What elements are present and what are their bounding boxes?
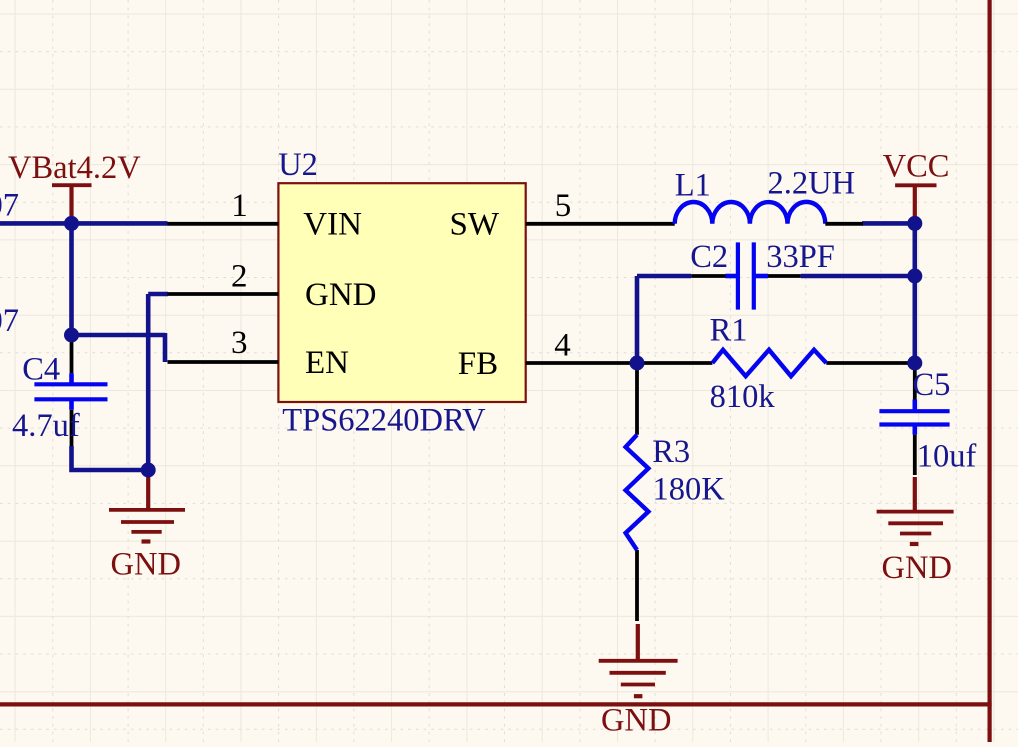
svg-text:FB: FB	[458, 346, 498, 382]
svg-text:07: 07	[0, 303, 19, 339]
svg-text:C2: C2	[690, 239, 728, 275]
svg-text:1: 1	[231, 188, 248, 224]
pin name FB	[458, 346, 498, 382]
svg-text:TPS62240DRV: TPS62240DRV	[282, 403, 486, 439]
inductor L1	[675, 202, 826, 224]
value 180K	[653, 472, 726, 508]
svg-text:4: 4	[554, 328, 571, 364]
pin number 2	[231, 259, 248, 295]
ground symbol bottom	[599, 624, 678, 696]
capacitor C2 plates	[738, 242, 754, 309]
wire C2 right	[801, 274, 915, 279]
svg-text:R3: R3	[652, 434, 690, 470]
net label VBat4.2V	[8, 150, 141, 186]
svg-text:3: 3	[231, 325, 248, 361]
svg-text:U2: U2	[278, 147, 318, 183]
capacitor C2 leads	[691, 274, 801, 278]
pin number 3	[231, 325, 248, 361]
designator R1	[710, 313, 748, 349]
value 4.7uf	[12, 408, 80, 444]
wire GND vertical	[146, 294, 151, 470]
capacitor C5 plates	[879, 400, 949, 435]
junction node C4/GND	[141, 463, 156, 478]
capacitor C4 leads	[70, 335, 74, 446]
capacitor C2 plate stubs	[726, 274, 769, 279]
designator C4	[22, 351, 60, 387]
value 2.2UH	[768, 166, 856, 202]
junction node VCC top	[907, 216, 922, 231]
resistor R1 leads	[637, 361, 908, 365]
svg-text:810k: 810k	[710, 379, 776, 415]
svg-text:07: 07	[0, 188, 19, 224]
svg-text:EN: EN	[305, 345, 349, 381]
pin 3 EN	[168, 360, 279, 364]
pin number 4	[554, 328, 571, 364]
wire VBat net horizontal	[0, 221, 168, 226]
wire C2 left	[637, 274, 691, 279]
cut net label 07 lower	[0, 303, 19, 339]
svg-text:VCC: VCC	[883, 149, 950, 185]
designator R3	[652, 434, 690, 470]
power port VCC	[895, 185, 936, 223]
pin number 5	[555, 188, 572, 224]
designator C5	[913, 367, 951, 403]
svg-text:GND: GND	[601, 703, 671, 739]
junction node VCC mid	[907, 269, 922, 284]
pin 5 SW	[526, 222, 675, 226]
svg-text:33PF: 33PF	[766, 239, 835, 275]
junction node VCC/C5	[907, 356, 922, 371]
wire VBat vertical to C4	[69, 223, 74, 335]
op-amp U2 body	[278, 183, 525, 402]
pin name EN	[305, 345, 349, 381]
svg-text:R1: R1	[710, 313, 748, 349]
svg-text:VBat4.2V: VBat4.2V	[8, 150, 141, 186]
wire EN vertical	[163, 333, 168, 362]
wire C2 to FB vertical	[635, 276, 640, 363]
junction node VBat/pin1	[64, 216, 79, 231]
svg-text:GND: GND	[305, 277, 377, 313]
svg-text:SW: SW	[450, 207, 500, 243]
ground symbol right	[877, 477, 954, 544]
value TPS62240DRV	[282, 403, 486, 439]
designator U2	[278, 147, 318, 183]
pin 2 GND	[168, 292, 279, 296]
svg-text:5: 5	[555, 188, 572, 224]
svg-text:2.2UH: 2.2UH	[768, 166, 856, 202]
svg-text:GND: GND	[882, 550, 952, 586]
ground symbol left	[109, 470, 185, 542]
pin 4 FB	[526, 361, 637, 365]
value 10uf	[917, 439, 977, 475]
value 810k	[710, 379, 776, 415]
pin 1 VIN	[168, 222, 279, 226]
pin number 1	[231, 188, 248, 224]
junction node FB	[630, 356, 645, 371]
inductor L1 right lead	[825, 222, 863, 226]
wire GND pin stub	[148, 292, 168, 297]
net label VCC	[883, 149, 950, 185]
pin name SW	[450, 207, 500, 243]
resistor R3 leads	[635, 363, 639, 621]
svg-text:L1: L1	[675, 168, 711, 204]
capacitor C5 leads	[913, 363, 917, 475]
wire SW to VCC	[862, 221, 915, 226]
ground label GND bottom	[601, 703, 671, 739]
svg-text:VIN: VIN	[303, 207, 362, 243]
wire EN horizontal y335	[72, 333, 166, 338]
ground label GND right	[882, 550, 952, 586]
designator C2	[690, 239, 728, 275]
capacitor C4 plates	[34, 373, 107, 409]
svg-text:C4: C4	[22, 351, 60, 387]
ground label GND left	[111, 547, 181, 583]
svg-text:4.7uf: 4.7uf	[12, 408, 80, 444]
sheet border bottom	[0, 702, 992, 706]
sheet border right	[987, 0, 991, 742]
svg-text:10uf: 10uf	[917, 439, 977, 475]
wire VCC vertical	[912, 223, 917, 363]
designator L1	[675, 168, 711, 204]
svg-text:C5: C5	[913, 367, 951, 403]
value 33PF	[766, 239, 835, 275]
pin name GND	[305, 277, 377, 313]
wire C4 bottom horizontal	[72, 446, 149, 470]
power port VBat4.2V	[52, 185, 92, 223]
pin name VIN	[303, 207, 362, 243]
resistor R3 zigzag	[626, 435, 649, 550]
resistor R1 zigzag	[712, 350, 826, 376]
svg-text:GND: GND	[111, 547, 181, 583]
svg-text:2: 2	[231, 259, 248, 295]
svg-text:180K: 180K	[653, 472, 726, 508]
junction node EN branch	[64, 328, 79, 343]
cut net label 07 upper	[0, 188, 19, 224]
